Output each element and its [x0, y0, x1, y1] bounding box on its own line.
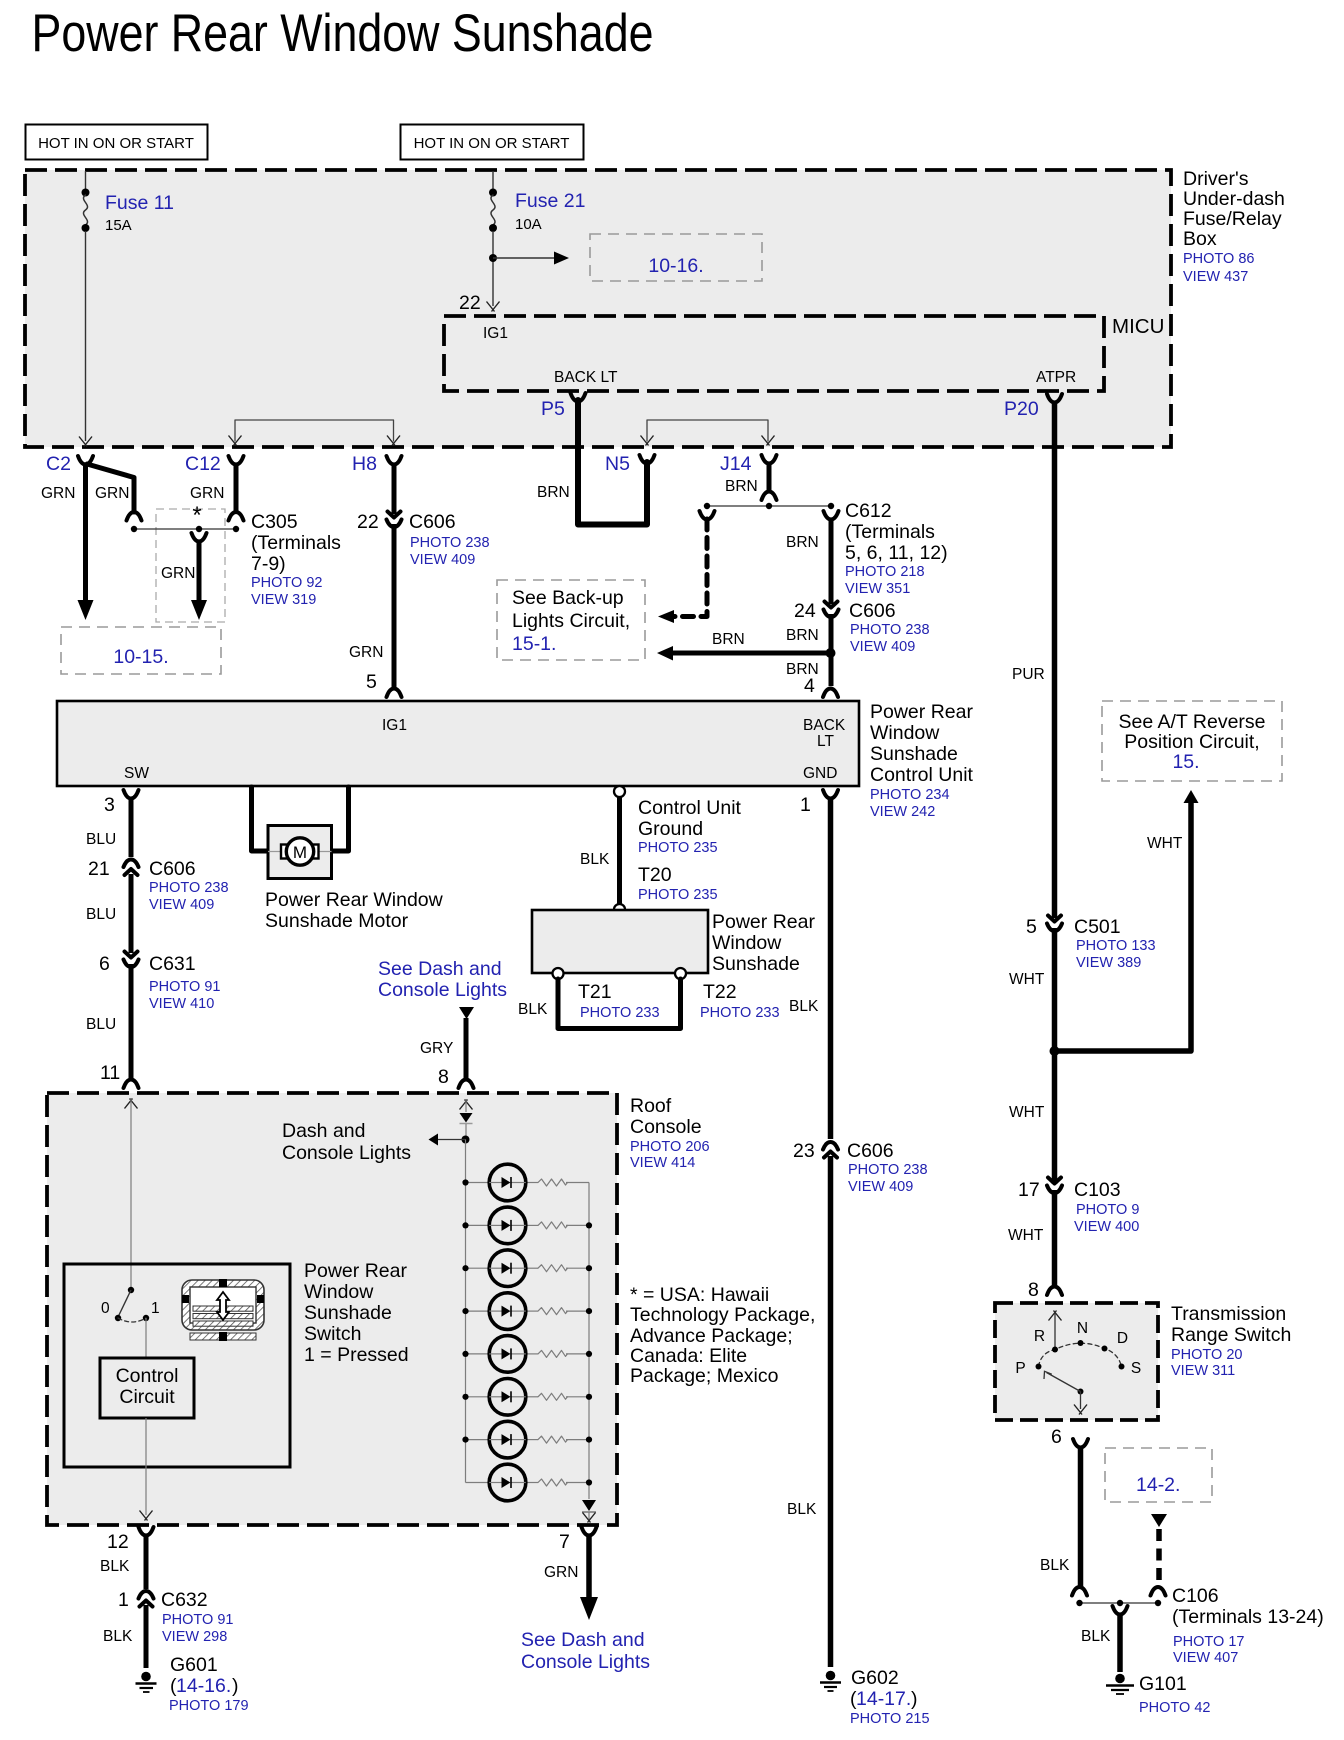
svg-text:10-15.: 10-15. — [113, 646, 168, 668]
svg-text:Power Rear: Power Rear — [712, 911, 815, 933]
T22 label — [700, 981, 780, 1021]
connector C12 — [185, 453, 244, 475]
node line C612 — [704, 503, 834, 509]
svg-text:See Dash and: See Dash and — [521, 1629, 645, 1651]
switch label — [304, 1260, 409, 1366]
svg-text:Ground: Ground — [638, 818, 703, 840]
wire GRN to control unit pin 5 — [349, 524, 402, 697]
svg-text:PHOTO 42: PHOTO 42 — [1139, 1700, 1210, 1716]
svg-text:15.: 15. — [1172, 751, 1199, 773]
svg-text:8: 8 — [438, 1066, 449, 1088]
svg-text:14-2.: 14-2. — [1136, 1474, 1180, 1496]
svg-text:Transmission: Transmission — [1171, 1303, 1286, 1325]
svg-text:Window: Window — [712, 932, 782, 954]
svg-text:Range Switch: Range Switch — [1171, 1324, 1291, 1346]
Roof Console box (dashed) — [47, 1093, 617, 1525]
wire BLK dashed from 14-2 ref to C106 — [1151, 1514, 1168, 1596]
svg-text:Sunshade: Sunshade — [304, 1302, 392, 1324]
ref box See Back-up Lights Circuit — [497, 580, 645, 660]
svg-text:VIEW 409: VIEW 409 — [410, 552, 475, 568]
wire switch to control circuit — [145, 1318, 147, 1358]
svg-text:GRN: GRN — [349, 644, 383, 661]
pin 22 label IG1 entry — [459, 292, 481, 314]
wire BRN J14 — [725, 462, 777, 500]
svg-text:PHOTO 9: PHOTO 9 — [1076, 1202, 1139, 1218]
svg-text:PHOTO 91: PHOTO 91 — [149, 979, 220, 995]
wire BLU to roof console pin 11 — [86, 964, 139, 1088]
wire BLK T20 control unit ground — [580, 786, 625, 915]
svg-text:BACK: BACK — [803, 717, 846, 734]
label box HOT IN ON OR START (left) — [26, 125, 208, 160]
connector J14 — [720, 453, 777, 475]
connector C106 label — [1172, 1585, 1324, 1666]
connector C606 pin 24 — [794, 600, 930, 655]
label box HOT IN ON OR START (right) — [401, 125, 584, 160]
motor label — [265, 889, 444, 932]
svg-text:BRN: BRN — [725, 478, 758, 495]
wire BLU control unit pin 3 — [86, 790, 139, 857]
svg-text:VIEW 400: VIEW 400 — [1074, 1219, 1139, 1235]
label GRN (C12) — [190, 485, 224, 502]
svg-text:): ) — [232, 1675, 239, 1697]
svg-text:C305: C305 — [251, 511, 298, 533]
svg-text:PHOTO 234: PHOTO 234 — [870, 787, 950, 803]
wire GRN roof console pin 7 — [544, 1527, 598, 1620]
Power Rear Window Sunshade Control Unit box — [57, 701, 859, 786]
wire BLK T21-T22 loop — [553, 968, 687, 1029]
svg-text:N5: N5 — [605, 453, 630, 475]
sunshade icon — [182, 1279, 264, 1341]
svg-text:PHOTO 179: PHOTO 179 — [169, 1698, 249, 1714]
connector C631 pin 6 — [99, 952, 220, 1013]
LED D1 row — [462, 1164, 589, 1201]
svg-text:Power Rear Window Sunshade: Power Rear Window Sunshade — [32, 4, 654, 63]
svg-text:Power Rear: Power Rear — [304, 1260, 407, 1282]
wire GRN C2 to ref 10-15 — [78, 463, 94, 620]
svg-text:GRN: GRN — [161, 565, 195, 582]
svg-text:BRN: BRN — [537, 484, 570, 501]
svg-text:Console Lights: Console Lights — [521, 1651, 650, 1673]
svg-text:*: * — [192, 502, 201, 529]
connector C606 pin 22 — [357, 511, 490, 568]
svg-text:C612: C612 — [845, 500, 892, 522]
svg-text:Sunshade: Sunshade — [712, 953, 800, 975]
svg-text:7: 7 — [559, 1531, 570, 1553]
wire to ref 10-16 with arrow — [493, 252, 569, 265]
svg-text:See Back-up: See Back-up — [512, 587, 624, 609]
LED D7 row — [462, 1421, 592, 1458]
svg-text:C631: C631 — [149, 953, 196, 975]
svg-text:14-17.: 14-17. — [856, 1688, 911, 1710]
ground G602 — [820, 1671, 841, 1691]
svg-text:Switch: Switch — [304, 1323, 361, 1345]
svg-text:VIEW 410: VIEW 410 — [149, 996, 214, 1012]
LED D3 row — [462, 1250, 592, 1287]
svg-text:G601: G601 — [170, 1654, 218, 1676]
svg-text:See A/T Reverse: See A/T Reverse — [1118, 711, 1265, 733]
svg-text:C606: C606 — [849, 600, 896, 622]
svg-text:1: 1 — [800, 794, 811, 816]
svg-text:1: 1 — [118, 1589, 129, 1611]
node dash/console lights tap — [429, 1134, 470, 1146]
svg-text:Fuse/Relay: Fuse/Relay — [1183, 208, 1282, 230]
svg-text:PHOTO 86: PHOTO 86 — [1183, 251, 1254, 267]
Control Circuit box — [100, 1358, 194, 1418]
svg-text:C106: C106 — [1172, 1585, 1219, 1607]
wire control circuit to pin 12 — [140, 1418, 153, 1521]
svg-text:Power Rear: Power Rear — [870, 701, 973, 723]
svg-text:PHOTO 218: PHOTO 218 — [845, 564, 925, 580]
svg-text:12: 12 — [107, 1531, 129, 1553]
internal feeder bracket N5-J14 — [641, 420, 775, 446]
svg-text:VIEW 407: VIEW 407 — [1173, 1650, 1238, 1666]
LED bus left — [465, 1140, 467, 1483]
wire BLK C106 to G101 — [1081, 1606, 1128, 1672]
svg-text:T22: T22 — [703, 981, 737, 1003]
sunshade unit label — [712, 911, 815, 975]
ref box See A/T Reverse Position Circuit — [1102, 701, 1282, 781]
svg-text:Window: Window — [870, 722, 940, 744]
svg-text:21: 21 — [88, 858, 110, 880]
ground G602 label — [850, 1667, 930, 1727]
svg-text:PUR: PUR — [1012, 666, 1045, 683]
svg-text:GRN: GRN — [41, 485, 75, 502]
svg-text:Fuse 21: Fuse 21 — [515, 190, 585, 212]
svg-text:5: 5 — [1026, 916, 1037, 938]
svg-text:PHOTO 17: PHOTO 17 — [1173, 1634, 1244, 1650]
svg-text:Power Rear Window: Power Rear Window — [265, 889, 444, 911]
svg-text:D: D — [1117, 1330, 1128, 1347]
svg-text:BLK: BLK — [789, 998, 819, 1015]
svg-text:GND: GND — [803, 765, 837, 782]
ground G601 label — [169, 1654, 249, 1714]
ref box 10-16 — [590, 234, 762, 281]
node P5 — [541, 393, 586, 420]
node line C106 — [1076, 1600, 1161, 1606]
wire WHT C501 to junction — [1009, 928, 1060, 1184]
svg-text:C606: C606 — [409, 511, 456, 533]
svg-text:Technology Package,: Technology Package, — [630, 1304, 815, 1326]
wire BLK roof console pin 12 — [100, 1527, 154, 1589]
svg-text:MICU: MICU — [1112, 315, 1164, 338]
svg-text:Control Unit: Control Unit — [638, 797, 742, 819]
connector N5 — [605, 453, 655, 475]
svg-text:GRY: GRY — [420, 1040, 453, 1057]
svg-text:BLK: BLK — [518, 1001, 548, 1018]
svg-text:14-16.: 14-16. — [176, 1675, 231, 1697]
svg-text:H8: H8 — [352, 453, 377, 475]
LED D4 row — [462, 1293, 592, 1330]
svg-text:6: 6 — [99, 953, 110, 975]
wire BLK control unit pin 1 to G602 — [789, 790, 838, 1139]
svg-text:Sunshade: Sunshade — [870, 743, 958, 765]
wire WHT branch to A/T reverse ref — [1055, 790, 1199, 1051]
Power Rear Window Sunshade box — [532, 910, 708, 973]
svg-text:N: N — [1077, 1320, 1088, 1337]
wire BRN dashed to back-up lights — [658, 511, 715, 623]
svg-text:WHT: WHT — [1008, 1227, 1044, 1244]
svg-text:11: 11 — [100, 1062, 120, 1084]
ref See Dash and Console Lights (top) — [378, 958, 507, 1019]
svg-text:C12: C12 — [185, 453, 221, 475]
svg-text:PHOTO 92: PHOTO 92 — [251, 575, 322, 591]
wire BLK C606 to G602 — [787, 1156, 831, 1667]
svg-text:R: R — [1034, 1328, 1045, 1345]
svg-text:BLK: BLK — [103, 1628, 133, 1645]
svg-text:Under-dash: Under-dash — [1183, 188, 1285, 210]
svg-text:(Terminals: (Terminals — [251, 532, 341, 554]
svg-text:C103: C103 — [1074, 1179, 1121, 1201]
svg-text:J14: J14 — [720, 453, 752, 475]
svg-text:Console Lights: Console Lights — [378, 979, 507, 1001]
label GRN (C2 left) — [41, 485, 75, 502]
connector C501 pin 5 — [1026, 916, 1156, 972]
node P20 — [1004, 394, 1062, 420]
svg-text:1 = Pressed: 1 = Pressed — [304, 1344, 409, 1366]
fuse F11 labels — [105, 192, 174, 234]
svg-text:5, 6, 11, 12): 5, 6, 11, 12) — [845, 542, 948, 564]
svg-text:Window: Window — [304, 1281, 374, 1303]
svg-text:BRN: BRN — [786, 627, 819, 644]
svg-text:PHOTO 238: PHOTO 238 — [410, 535, 490, 551]
svg-text:WHT: WHT — [1009, 971, 1045, 988]
dash and console lights label — [282, 1120, 411, 1164]
ground G601 — [136, 1672, 157, 1692]
svg-text:BLU: BLU — [86, 1016, 116, 1033]
svg-text:3: 3 — [104, 794, 115, 816]
svg-text:): ) — [911, 1688, 918, 1710]
label GRN (variant) — [161, 565, 195, 582]
wire motor bracket left — [252, 787, 268, 851]
svg-text:VIEW 311: VIEW 311 — [1171, 1363, 1235, 1379]
wire GRN C2 branch to C305 — [87, 464, 142, 521]
svg-text:WHT: WHT — [1147, 835, 1183, 852]
svg-text:0: 0 — [101, 1300, 110, 1317]
wire PUR P20 to C501 — [1012, 401, 1055, 918]
wire WHT C103 to transmission range switch pin 8 — [1008, 1190, 1062, 1301]
wire GRN C12 to C305 — [229, 463, 244, 521]
svg-text:IG1: IG1 — [483, 325, 508, 342]
svg-text:G602: G602 — [851, 1667, 899, 1689]
Driver's Under-dash Fuse/Relay Box label — [1183, 168, 1285, 285]
svg-text:VIEW 409: VIEW 409 — [850, 639, 915, 655]
svg-text:VIEW 414: VIEW 414 — [630, 1155, 695, 1171]
T20 labels — [638, 797, 742, 903]
svg-text:VIEW 389: VIEW 389 — [1076, 955, 1141, 971]
svg-text:Advance Package;: Advance Package; — [630, 1325, 793, 1347]
transmission range switch label — [1171, 1303, 1291, 1379]
connector C606 pin 21 — [88, 858, 229, 913]
svg-text:HOT IN ON OR START: HOT IN ON OR START — [414, 135, 570, 152]
svg-text:P5: P5 — [541, 398, 565, 420]
transmission range switch position labels — [1015, 1320, 1141, 1377]
svg-text:PHOTO 233: PHOTO 233 — [580, 1005, 660, 1021]
svg-text:G101: G101 — [1139, 1673, 1187, 1695]
Power Rear Window Sunshade Switch box — [64, 1264, 290, 1467]
connector H8 — [352, 453, 402, 475]
svg-text:BRN: BRN — [712, 631, 745, 648]
svg-text:PHOTO 238: PHOTO 238 — [149, 880, 229, 896]
svg-text:BRN: BRN — [786, 534, 819, 551]
svg-text:Driver's: Driver's — [1183, 168, 1249, 190]
svg-text:Console: Console — [630, 1116, 702, 1138]
diode D1 console output — [582, 1500, 596, 1523]
svg-text:VIEW 351: VIEW 351 — [845, 581, 910, 597]
fuse F21 labels — [515, 190, 585, 233]
svg-text:P: P — [1015, 1360, 1025, 1377]
svg-text:BLK: BLK — [580, 851, 610, 868]
fuse F11 15A — [79, 171, 92, 447]
svg-text:1: 1 — [151, 1300, 160, 1317]
svg-text:6: 6 — [1051, 1426, 1062, 1448]
svg-text:7-9): 7-9) — [251, 553, 286, 575]
svg-text:WHT: WHT — [1009, 1104, 1045, 1121]
Driver's Under-dash Fuse/Relay Box (dashed) — [25, 170, 1171, 447]
svg-text:PHOTO 20: PHOTO 20 — [1171, 1347, 1242, 1363]
svg-text:24: 24 — [794, 600, 816, 622]
svg-text:P20: P20 — [1004, 398, 1039, 420]
svg-text:See Dash and: See Dash and — [378, 958, 502, 980]
connector C305 label — [251, 511, 341, 608]
svg-text:C606: C606 — [847, 1140, 894, 1162]
svg-text:15-1.: 15-1. — [512, 633, 556, 655]
svg-text:10-16.: 10-16. — [648, 255, 703, 277]
svg-text:PHOTO 238: PHOTO 238 — [850, 622, 930, 638]
ground G101 — [1106, 1674, 1134, 1694]
fuse F21 10A — [487, 171, 500, 312]
svg-text:VIEW 437: VIEW 437 — [1183, 269, 1248, 285]
svg-text:10A: 10A — [515, 216, 542, 233]
wire BLK transmission range switch pin 6 to C106 — [1040, 1426, 1088, 1596]
svg-text:VIEW 409: VIEW 409 — [848, 1179, 913, 1195]
svg-text:(Terminals: (Terminals — [845, 521, 935, 543]
label GRN (C2 right) — [95, 485, 129, 502]
LED D8 row — [466, 1464, 593, 1501]
svg-text:Control Unit: Control Unit — [870, 764, 974, 786]
svg-text:4: 4 — [804, 675, 815, 697]
svg-text:BLK: BLK — [787, 1501, 817, 1518]
svg-text:17: 17 — [1018, 1179, 1040, 1201]
wire pin 11 to switch — [125, 1098, 138, 1288]
LED D5 row — [462, 1336, 592, 1373]
LED D6 row — [462, 1379, 592, 1416]
wire BLK C632 to G601 — [103, 1605, 146, 1668]
title: Power Rear Window Sunshade — [32, 4, 654, 63]
wire BLU C606 to C631 — [86, 874, 131, 953]
svg-text:Position Circuit,: Position Circuit, — [1124, 731, 1259, 753]
connector C612 label — [845, 500, 948, 597]
svg-text:GRN: GRN — [544, 1564, 578, 1581]
svg-text:C501: C501 — [1074, 916, 1121, 938]
svg-text:ATPR: ATPR — [1036, 369, 1076, 386]
svg-text:Sunshade Motor: Sunshade Motor — [265, 910, 409, 932]
svg-text:Roof: Roof — [630, 1095, 672, 1117]
wire GRY to roof console pin 8 — [420, 1018, 474, 1088]
svg-text:(Terminals 13-24): (Terminals 13-24) — [1172, 1606, 1324, 1628]
svg-text:S: S — [1131, 1360, 1141, 1377]
svg-text:VIEW 242: VIEW 242 — [870, 804, 935, 820]
svg-text:M: M — [293, 843, 307, 862]
connector C2 — [46, 453, 93, 475]
Transmission Range Switch box (dashed) — [995, 1303, 1158, 1420]
ground G101 label — [1139, 1673, 1210, 1716]
internal feeder bracket C12-H8 — [229, 420, 401, 446]
svg-text:Fuse 11: Fuse 11 — [105, 192, 174, 214]
svg-text:PHOTO 235: PHOTO 235 — [638, 887, 718, 903]
transmission range switch rotary contacts — [1036, 1311, 1125, 1415]
svg-text:BLU: BLU — [86, 906, 116, 923]
svg-text:Canada: Elite: Canada: Elite — [630, 1345, 747, 1367]
wire BRN junction to back-up lights arrow — [657, 614, 836, 686]
svg-text:VIEW 298: VIEW 298 — [162, 1629, 227, 1645]
wire motor bracket right — [332, 787, 349, 851]
svg-text:BACK LT: BACK LT — [554, 369, 618, 386]
svg-text:15A: 15A — [105, 217, 132, 234]
variant dashed box (asterisk) — [156, 502, 225, 622]
connector C103 pin 17 — [1018, 1178, 1139, 1236]
svg-text:5: 5 — [366, 671, 377, 693]
svg-text:PHOTO 235: PHOTO 235 — [638, 840, 718, 856]
motor M1 Power Rear Window Sunshade Motor — [268, 826, 332, 879]
svg-text:Package; Mexico: Package; Mexico — [630, 1365, 779, 1387]
svg-text:BLK: BLK — [1040, 1557, 1070, 1574]
svg-text:23: 23 — [793, 1140, 815, 1162]
svg-text:C606: C606 — [149, 858, 196, 880]
svg-text:SW: SW — [124, 765, 149, 782]
control unit label — [870, 701, 974, 820]
svg-text:22: 22 — [357, 511, 379, 533]
node line C305 — [131, 526, 239, 532]
svg-text:PHOTO 233: PHOTO 233 — [700, 1005, 780, 1021]
svg-text:VIEW 409: VIEW 409 — [149, 897, 214, 913]
svg-text:Control: Control — [116, 1365, 179, 1387]
wire BRN P5 to N5 — [537, 400, 647, 525]
LED bus right — [588, 1183, 590, 1500]
svg-text:22: 22 — [459, 292, 481, 314]
wire BRN C612 to C606 pin 24 — [786, 511, 839, 604]
LED D2 row — [462, 1207, 592, 1244]
MICU box (dashed) — [444, 315, 1164, 391]
ref box 14-2 — [1105, 1448, 1212, 1502]
svg-text:T21: T21 — [578, 981, 612, 1003]
wire pin 8 internal with diode arrow — [460, 1099, 473, 1139]
ref See Dash and Console Lights (bottom) — [521, 1629, 650, 1673]
label WHT above C103 — [1009, 1104, 1045, 1121]
svg-text:T20: T20 — [638, 864, 672, 886]
connector C632 pin 1 — [118, 1589, 233, 1645]
svg-text:IG1: IG1 — [382, 717, 407, 734]
svg-text:BLU: BLU — [86, 831, 116, 848]
T21 label — [518, 981, 660, 1021]
connector C606 pin 23 — [793, 1140, 928, 1195]
roof console label — [630, 1095, 710, 1171]
svg-text:Circuit: Circuit — [119, 1386, 175, 1408]
wire GRN H8 — [392, 463, 397, 514]
svg-text:Dash and: Dash and — [282, 1120, 365, 1142]
svg-text:BLK: BLK — [1081, 1628, 1111, 1645]
svg-text:HOT IN ON OR START: HOT IN ON OR START — [38, 135, 194, 152]
svg-text:GRN: GRN — [95, 485, 129, 502]
svg-text:BLK: BLK — [100, 1558, 130, 1575]
wire GRN C305 to ref 10-15 — [191, 533, 207, 620]
wire BRN into control unit pin 4 — [786, 661, 838, 697]
svg-text:PHOTO 215: PHOTO 215 — [850, 1711, 930, 1727]
ref box 10-15 — [61, 627, 221, 674]
switch contacts 0/1 — [101, 1287, 160, 1322]
svg-text:* = USA: Hawaii: * = USA: Hawaii — [630, 1284, 769, 1306]
svg-text:Lights Circuit,: Lights Circuit, — [512, 610, 630, 632]
svg-text:Console Lights: Console Lights — [282, 1142, 411, 1164]
